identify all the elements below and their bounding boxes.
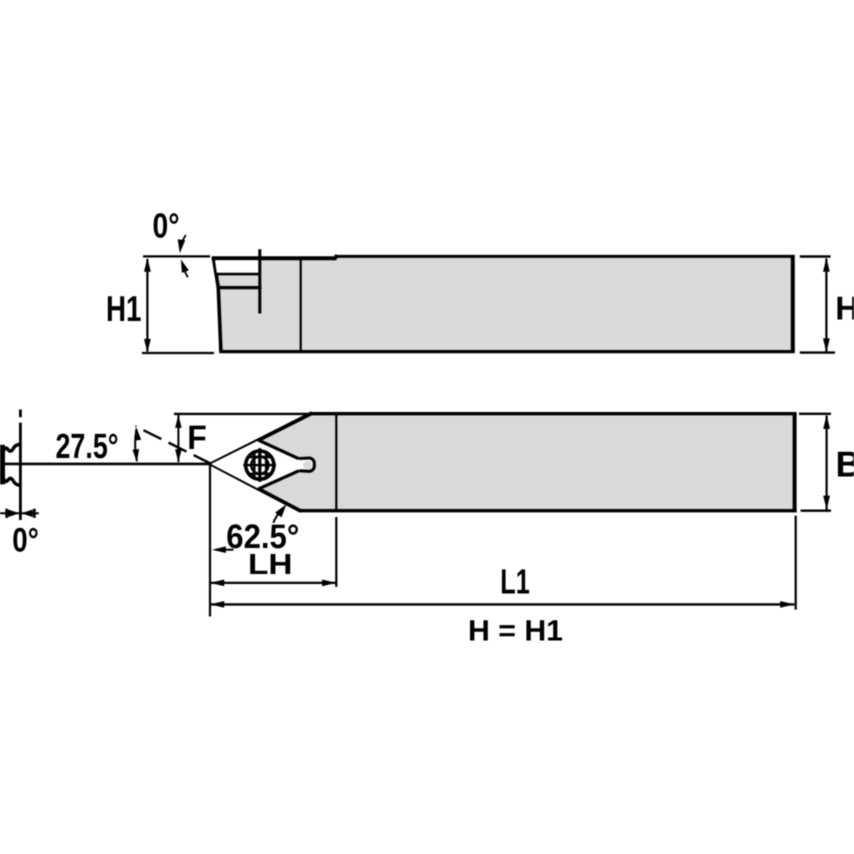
tool body (front view) fill bbox=[211, 414, 795, 511]
0 deg leader arrow above surface bbox=[178, 239, 186, 253]
LH right extension line bbox=[335, 517, 337, 587]
insert screw: grid vertical right bbox=[265, 454, 267, 478]
shim bottom line (side view) bbox=[217, 286, 261, 289]
insert screw: grid horizontal upper bbox=[249, 456, 272, 458]
0 deg leader tail line (side view) bbox=[184, 270, 188, 278]
svg-text:H: H bbox=[835, 290, 854, 327]
screw center line (side view) bbox=[258, 249, 261, 313]
head/shank boundary line (side view) bbox=[300, 258, 302, 352]
insert bottom line (side view) bbox=[216, 273, 260, 276]
head/shank boundary line (front view) bbox=[335, 414, 337, 511]
F extension line (top face extended) bbox=[174, 413, 311, 415]
H1 dimension line bbox=[146, 259, 148, 352]
clamp pin inner gray bbox=[303, 461, 312, 469]
clamp pin capsule outline bbox=[300, 458, 314, 471]
H1 dimension top extension line bbox=[143, 255, 210, 257]
H dimension top extension line bbox=[800, 255, 831, 257]
62.5deg horizontal arrow tail bbox=[225, 549, 234, 551]
62.5deg leader curved line bbox=[273, 512, 280, 523]
H1 dimension bottom extension line bbox=[142, 352, 214, 354]
top edge left segment (side view) bbox=[212, 256, 336, 260]
0 deg converging arrows line (front view) bbox=[0, 512, 39, 514]
top edge (front view) bbox=[310, 412, 794, 415]
LH arrow left bbox=[210, 580, 224, 587]
insert inner lower edge (front view) bbox=[258, 470, 301, 489]
H1 arrow up bbox=[144, 258, 151, 272]
svg-text:0°: 0° bbox=[12, 521, 39, 559]
clamp pin capsule fill bbox=[296, 458, 315, 471]
workpiece break line lower bbox=[4, 478, 20, 485]
workpiece break line upper bbox=[4, 444, 20, 451]
left extension line below insert tip bbox=[209, 465, 211, 617]
27.5deg arc arrow down bbox=[133, 449, 140, 462]
L1 arrow left bbox=[210, 601, 224, 608]
top edge step nub (side view) bbox=[334, 255, 337, 260]
lead angle dashed line 27.5deg bbox=[136, 426, 212, 464]
B arrow down bbox=[823, 496, 830, 510]
insert screw: crosshair vertical bbox=[258, 448, 261, 482]
insert upper edge 27.5deg (front view) bbox=[211, 413, 313, 464]
F dimension line bbox=[177, 415, 179, 462]
0 deg left tail tick bbox=[5, 509, 8, 518]
insert screw: grid vertical left bbox=[253, 454, 255, 478]
H arrow down bbox=[823, 338, 830, 352]
insert screw: grid horizontal lower bbox=[249, 473, 272, 475]
B dimension bottom extension line bbox=[801, 510, 831, 512]
svg-text:F: F bbox=[187, 419, 207, 457]
svg-text:L1: L1 bbox=[500, 562, 530, 601]
H dimension line bbox=[825, 259, 827, 352]
top edge right segment (side view) bbox=[335, 255, 793, 258]
right end edge (front view) bbox=[793, 412, 797, 512]
bottom edge (side view) bbox=[219, 350, 794, 353]
F arrow up bbox=[175, 415, 182, 428]
0 deg arrow pointing left bbox=[21, 510, 33, 518]
0 deg leader arrow below surface bbox=[181, 259, 189, 273]
0 deg arrow pointing right bbox=[8, 510, 20, 518]
B dimension top extension line bbox=[799, 413, 831, 415]
LH dimension line bbox=[210, 582, 336, 584]
B arrow up bbox=[823, 415, 830, 429]
L1 arrow right bbox=[780, 601, 794, 608]
0 deg leader line upper (side view) bbox=[181, 235, 186, 244]
insert screw: outer circle bbox=[246, 451, 274, 479]
0 deg right tail tick bbox=[33, 509, 36, 518]
L1 dimension line bbox=[210, 603, 794, 605]
workpiece centerline (front view) bbox=[3, 463, 211, 466]
svg-text:27.5°: 27.5° bbox=[56, 427, 119, 466]
workpiece block bbox=[0, 445, 5, 485]
insert lower edge 62.5deg (front view) bbox=[211, 464, 301, 511]
62.5deg horizontal arrow at extension line bbox=[212, 546, 226, 553]
H1 arrow down bbox=[144, 339, 151, 353]
svg-text:0°: 0° bbox=[153, 207, 180, 246]
27.5deg arc arrow up bbox=[135, 427, 142, 440]
LH arrow right bbox=[322, 580, 336, 587]
bottom edge (front view) bbox=[299, 509, 797, 512]
right end edge (side view) bbox=[791, 255, 795, 353]
L1 right extension line bbox=[795, 516, 797, 610]
insert inner upper edge (front view) bbox=[258, 440, 300, 460]
insert screw: inner circle bbox=[251, 457, 268, 474]
insert diamond (white, front view) bbox=[211, 440, 301, 489]
workpiece axis dash-dot line bbox=[19, 410, 22, 418]
tool body (side view) fill bbox=[214, 256, 793, 351]
H arrow up bbox=[823, 258, 830, 272]
left slanted edge (side view) bbox=[213, 257, 221, 352]
27.5deg arc bbox=[135, 429, 137, 461]
svg-text:H = H1: H = H1 bbox=[468, 614, 563, 647]
insert screw: crosshair horizontal bbox=[243, 464, 276, 466]
svg-text:LH: LH bbox=[248, 549, 293, 581]
62.5deg leader arrowhead on insert edge bbox=[275, 504, 286, 517]
H dimension bottom extension line bbox=[800, 351, 835, 353]
svg-text:H1: H1 bbox=[106, 288, 142, 329]
F arrow down bbox=[175, 449, 182, 462]
B dimension line bbox=[825, 416, 827, 510]
svg-text:B: B bbox=[836, 443, 854, 484]
insert (white, side view) bbox=[215, 260, 258, 273]
